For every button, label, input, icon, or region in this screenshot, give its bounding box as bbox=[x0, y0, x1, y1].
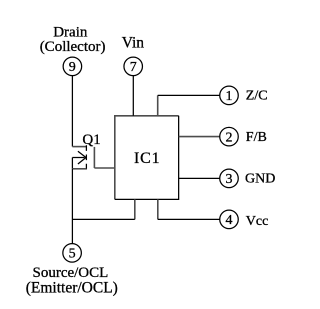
svg-text:(Collector): (Collector) bbox=[40, 39, 106, 55]
op-amp / controller IC1 bbox=[115, 116, 179, 200]
svg-text:Q1: Q1 bbox=[82, 132, 100, 148]
wire IC1 bottom to pin 4 bbox=[158, 199, 220, 219]
svg-text:GND: GND bbox=[245, 172, 275, 187]
svg-text:9: 9 bbox=[69, 60, 76, 75]
svg-text:Vcc: Vcc bbox=[246, 214, 269, 229]
svg-text:Z/C: Z/C bbox=[246, 89, 268, 104]
svg-text:2: 2 bbox=[226, 130, 233, 145]
transistor Q1 channel (dashed) bbox=[85, 145, 87, 169]
wire IC1 to pin 2 bbox=[179, 136, 220, 138]
node Drain (Collector) label bbox=[40, 25, 106, 56]
svg-text:4: 4 bbox=[226, 213, 233, 228]
wire IC1 to pin 3 bbox=[179, 177, 220, 179]
svg-text:Drain: Drain bbox=[53, 25, 88, 41]
pin 9 terminal bbox=[63, 57, 82, 76]
svg-text:IC1: IC1 bbox=[134, 150, 160, 167]
transistor Q1 body arrow bbox=[72, 151, 86, 164]
wire IC1 top to pin 1 bbox=[158, 95, 220, 115]
wire Q1 gate to IC1 bbox=[94, 167, 114, 169]
pin 3 terminal bbox=[220, 169, 239, 188]
pin 2 terminal bbox=[220, 127, 239, 146]
transistor Q1 gate bar bbox=[93, 147, 95, 168]
pin 5 terminal bbox=[63, 244, 82, 263]
svg-text:5: 5 bbox=[69, 247, 76, 262]
wire Q1 source down to bottom rail and pin 5 bbox=[71, 169, 73, 244]
transistor Q1 source stub bbox=[72, 168, 86, 170]
pin 7 terminal bbox=[124, 57, 143, 76]
svg-text:1: 1 bbox=[226, 89, 233, 104]
svg-text:3: 3 bbox=[226, 172, 233, 187]
svg-text:7: 7 bbox=[130, 60, 137, 75]
svg-text:(Emitter/OCL): (Emitter/OCL) bbox=[26, 279, 118, 296]
wire pin 9 to Q1 drain bbox=[71, 76, 73, 147]
transistor Q1 drain stub bbox=[72, 146, 86, 148]
pin 4 terminal bbox=[220, 210, 239, 229]
node Source/OCL (Emitter/OCL) label bbox=[26, 265, 118, 296]
svg-text:F/B: F/B bbox=[246, 130, 267, 145]
transistor Q1 arrow tail to source bbox=[71, 158, 73, 169]
svg-text:Vin: Vin bbox=[122, 35, 145, 52]
wire pin 7 to IC1 top bbox=[132, 76, 134, 116]
pin 1 terminal bbox=[220, 86, 239, 105]
wire IC1 bottom-left stub to source rail bbox=[72, 199, 134, 219]
